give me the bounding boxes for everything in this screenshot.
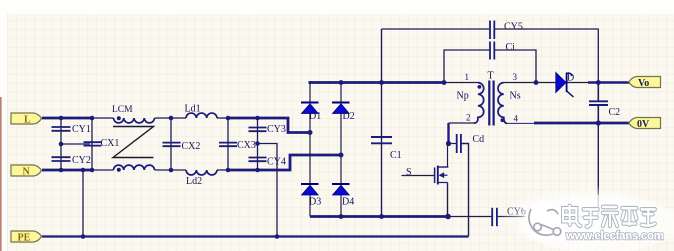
wire CY3-CY4 vertical x257.5	[257, 118, 259, 170]
wire D1 to L node to D3	[309, 114, 311, 184]
svg-text:L: L	[24, 115, 31, 126]
wire L line thin 217-228	[217, 117, 228, 119]
node N-CX3	[226, 168, 231, 173]
svg-text:CY2: CY2	[72, 155, 91, 166]
wire N line thin 154-186	[155, 169, 187, 171]
wire Cd right to PE	[462, 144, 469, 237]
node L-CY1	[59, 116, 64, 121]
svg-text:Ns: Ns	[510, 91, 521, 102]
node bridge N	[339, 153, 344, 158]
wire pin4 thin	[506, 122, 535, 124]
svg-text:0V: 0V	[637, 119, 650, 130]
wire CX1 vertical x92	[91, 118, 93, 170]
svg-text:CX2: CX2	[182, 141, 201, 152]
svg-text:2: 2	[466, 113, 471, 123]
svg-text:CX1: CX1	[101, 138, 120, 149]
diode D schottky	[556, 73, 574, 98]
node L-CY3	[255, 116, 260, 121]
wire pin1	[444, 82, 478, 84]
Ns polarity dot	[501, 118, 505, 122]
capacitor CY6	[492, 208, 497, 226]
wire C1 CY5 vertical x381.5	[381, 29, 383, 217]
diode D4	[332, 184, 350, 195]
svg-text:C2: C2	[609, 107, 621, 118]
svg-text:3: 3	[513, 72, 518, 82]
svg-text:Ci: Ci	[506, 42, 516, 53]
svg-text:Vo: Vo	[638, 78, 649, 89]
wire CY mid to PE x277	[258, 144, 278, 237]
wire drain	[438, 144, 448, 168]
LCM bottom polarity dot	[117, 168, 121, 172]
wire N line thick to bridge	[227, 155, 341, 170]
capacitor C1	[371, 137, 392, 143]
capacitor CY4	[249, 158, 267, 162]
svg-text:S: S	[406, 167, 412, 178]
node rail D2	[339, 80, 344, 85]
wire top rail thick	[309, 81, 444, 84]
node sec Ci	[534, 80, 539, 85]
inductor LCM top winding	[114, 118, 155, 123]
svg-text:CY3: CY3	[267, 124, 286, 135]
transformer Ns winding	[498, 83, 507, 124]
red sheet edge	[0, 97, 2, 251]
node N-CY2	[59, 168, 64, 173]
logo circle	[525, 202, 564, 241]
wire N to PE vertical x83	[82, 170, 84, 237]
wire L line thin 156-186	[155, 117, 187, 119]
svg-text:CY1: CY1	[72, 124, 91, 135]
wire Ci horizontal	[444, 50, 536, 83]
node rail C1	[379, 80, 384, 85]
wire source down	[447, 183, 449, 217]
wire N line thin 92-113	[92, 169, 114, 171]
wire 0V to CY6 vertical	[597, 123, 599, 217]
wire L line thin 92-119	[92, 117, 114, 119]
terminal PE	[11, 231, 42, 244]
node CY34 mid	[255, 141, 260, 146]
svg-text:PE: PE	[18, 233, 31, 244]
capacitor CY5	[490, 21, 494, 40]
terminal 0V	[629, 118, 661, 131]
node L-CX2	[169, 116, 174, 121]
wire D3 stem bottom	[309, 195, 311, 216]
wire D4 stem bottom	[340, 195, 342, 216]
wire top rail elbow down to D1	[309, 81, 312, 84]
svg-text:C1: C1	[390, 150, 402, 161]
wire D2 to N node to D4	[340, 114, 342, 184]
node rail2 source	[445, 214, 451, 220]
svg-text:www.elecfans.com: www.elecfans.com	[565, 231, 664, 243]
capacitor CY1	[52, 127, 71, 131]
wire Vo thick	[588, 81, 630, 84]
diode D1	[301, 103, 319, 114]
wire L line thick 42-92	[42, 117, 93, 120]
wire pin2 drop thick	[447, 123, 449, 144]
svg-text:D4: D4	[342, 197, 354, 208]
diode D2	[332, 103, 350, 114]
wire pin2 horizontal	[449, 122, 476, 124]
node N-CX1	[90, 168, 95, 173]
node sec CY5	[596, 80, 601, 85]
node CY12 mid	[59, 142, 64, 147]
svg-text:D: D	[567, 73, 574, 84]
capacitor CX3	[219, 143, 237, 147]
node bridge L	[308, 130, 313, 135]
node L-CX3	[226, 116, 231, 121]
node PE-2	[275, 234, 280, 239]
wire CY mid to CX1	[61, 143, 90, 145]
wire CX2 vertical x171	[170, 118, 172, 170]
svg-text:CY5: CY5	[504, 22, 523, 33]
wire gate with S	[402, 175, 435, 177]
LCM core Z	[113, 127, 154, 158]
terminal N	[11, 165, 42, 178]
capacitor C2	[589, 101, 608, 105]
node drain Cd	[446, 141, 451, 146]
node rail2 D4	[339, 214, 344, 219]
transformer Np winding	[474, 83, 484, 123]
transistor Q MOSFET	[435, 166, 449, 185]
svg-text:4: 4	[514, 114, 519, 124]
terminal Vo	[629, 77, 661, 90]
node L-CX1	[90, 116, 95, 121]
wire C2 vertical	[597, 83, 599, 101]
node rail2 C1	[379, 214, 384, 219]
wire bottom rail thick	[310, 215, 448, 218]
svg-text:T: T	[488, 71, 494, 82]
capacitor CY3	[249, 128, 267, 132]
svg-text:D2: D2	[343, 111, 355, 122]
svg-text:D3: D3	[309, 197, 321, 208]
node N-CX2	[169, 168, 174, 173]
inductor Ld1	[186, 113, 217, 118]
wire D cathode to Vo thin	[567, 82, 590, 84]
wire CX3 vertical x228	[227, 118, 229, 170]
inductor LCM bottom winding	[114, 165, 155, 170]
svg-text:Cd: Cd	[473, 134, 485, 145]
wire N line thin 217-228	[217, 169, 228, 171]
wire PE line	[42, 235, 469, 237]
diode D3	[301, 184, 319, 195]
transformer T core	[489, 81, 493, 126]
node rail Ci	[442, 80, 447, 85]
capacitor CY2	[52, 157, 71, 161]
svg-text:D1: D1	[309, 111, 321, 122]
node 0V C2	[596, 120, 601, 125]
capacitor CX2	[163, 143, 181, 147]
wire pin3 to diode D	[504, 82, 556, 84]
svg-text:CX3: CX3	[237, 140, 256, 151]
node PE-1	[81, 234, 86, 239]
svg-text:CY4: CY4	[267, 157, 286, 168]
svg-text:Np: Np	[457, 91, 469, 102]
wire 0V thick	[534, 122, 630, 125]
svg-text:Ld1: Ld1	[185, 104, 201, 115]
wire bottom rail thin to CY6	[448, 216, 492, 218]
wire CY6 right to 0V	[498, 216, 599, 218]
svg-text:N: N	[23, 167, 31, 178]
svg-text:Ld2: Ld2	[186, 176, 202, 187]
node N-CY4	[255, 168, 260, 173]
svg-text:LCM: LCM	[112, 105, 133, 115]
inductor Ld2	[186, 170, 217, 175]
terminal L	[11, 113, 42, 126]
capacitor Ci	[490, 42, 494, 60]
wire CY1-CY2 vertical x61	[60, 118, 62, 170]
Np polarity dot	[478, 85, 482, 89]
capacitor CX1	[84, 142, 102, 145]
wire L line thick to bridge	[227, 118, 310, 133]
LCM top polarity dot	[117, 116, 121, 120]
wire N line thick 42-92	[42, 169, 93, 172]
wire Cd left	[449, 143, 457, 145]
wire D2 stem top	[340, 84, 342, 102]
wire D1 stem top	[309, 84, 311, 102]
node N-PE	[81, 168, 86, 173]
capacitor Cd	[457, 134, 461, 153]
chinese watermark glyphs (stylized)	[563, 206, 655, 227]
svg-text:1: 1	[465, 72, 470, 82]
wire CY5 horizontal	[382, 29, 599, 83]
